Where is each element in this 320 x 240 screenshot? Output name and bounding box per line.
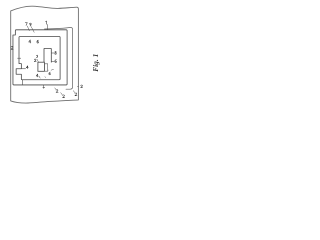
leader bbox=[73, 91, 75, 93]
svg-text:Fig. 1: Fig. 1 bbox=[91, 54, 100, 72]
outer enclosure box (top/right partial outline) bbox=[45, 27, 73, 89]
numeral 6 below box C bbox=[49, 72, 51, 75]
nub at page edge bbox=[77, 86, 78, 88]
numeral 6 right of box C bbox=[55, 60, 57, 63]
leader bbox=[61, 93, 63, 96]
numeral 7 above box left bbox=[25, 23, 27, 26]
numeral 2 below bottom right bbox=[63, 95, 65, 98]
numeral 3 mid bbox=[36, 55, 37, 58]
page frame bbox=[11, 6, 79, 103]
numeral 2 below bottom mid bbox=[56, 90, 58, 93]
leg between bottom edges bbox=[21, 80, 23, 85]
pin mark below bottom edge bbox=[43, 85, 45, 89]
numeral 2 right of page edge bbox=[81, 85, 83, 88]
small dash near B2 bbox=[48, 69, 49, 70]
component box C (tall, upper) bbox=[44, 48, 51, 62]
numeral 2 outside left bbox=[11, 46, 13, 49]
numeral 4 below box B bbox=[36, 74, 38, 77]
numeral 2 mid lower bbox=[34, 59, 36, 62]
wire step from inner notch bbox=[21, 68, 25, 70]
tick L (box C right, lower) bbox=[51, 60, 54, 62]
tick K (box C right, upper) bbox=[51, 52, 54, 54]
leader below box B bbox=[39, 76, 40, 78]
tick on inner left edge bbox=[17, 57, 21, 59]
numeral 1 top center bbox=[45, 21, 48, 24]
main device box (with top-left jog) bbox=[13, 30, 67, 85]
numeral 4 at wire step bbox=[26, 66, 28, 69]
leader for 9 bbox=[31, 27, 34, 33]
numeral 2 near page edge bbox=[75, 93, 77, 96]
component box B (lower left) bbox=[38, 62, 45, 71]
leader to box B corner bbox=[37, 59, 39, 62]
tilde leader to inner right edge bbox=[51, 69, 54, 72]
leader for 7 bbox=[27, 26, 29, 31]
numeral 6 inside upper-mid bbox=[37, 40, 39, 43]
tick below box B2 bbox=[45, 77, 46, 78]
leader for 1 bbox=[47, 24, 49, 30]
inner region box (notched bottom-left corner) bbox=[16, 37, 60, 80]
numeral 9 above box right bbox=[30, 23, 32, 26]
numeral 8 right of box C bbox=[55, 51, 56, 54]
leader bbox=[55, 88, 57, 90]
numeral 4 inside upper-left bbox=[29, 40, 31, 43]
component box B2 (lower right small) bbox=[44, 64, 47, 71]
